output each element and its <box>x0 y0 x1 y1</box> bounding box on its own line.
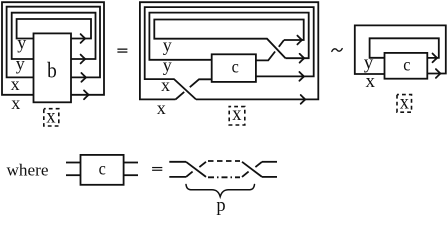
svg-text:b: b <box>47 59 57 82</box>
svg-text:y: y <box>17 33 26 53</box>
svg-text:c: c <box>403 55 411 75</box>
svg-text:x: x <box>365 71 375 92</box>
svg-text:y: y <box>163 35 172 55</box>
svg-text:x: x <box>161 75 170 95</box>
svg-text:c: c <box>99 159 107 179</box>
svg-text:y: y <box>163 55 172 75</box>
svg-text:x: x <box>11 74 20 94</box>
svg-text:x: x <box>157 98 166 118</box>
svg-text:x: x <box>400 92 410 114</box>
svg-text:p: p <box>216 196 225 216</box>
svg-text:c: c <box>232 57 240 77</box>
svg-text:x: x <box>11 93 20 113</box>
svg-text:x: x <box>232 103 242 125</box>
svg-text:y: y <box>16 54 25 74</box>
svg-text:where: where <box>7 160 49 179</box>
svg-text:x: x <box>46 106 56 128</box>
